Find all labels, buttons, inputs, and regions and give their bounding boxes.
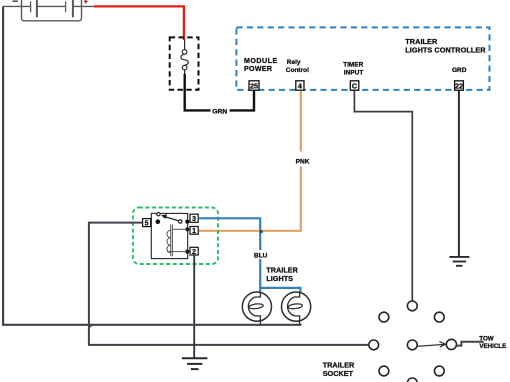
relay pin 5 xyxy=(143,219,151,228)
svg-text:TOW: TOW xyxy=(479,336,493,343)
socket pin top xyxy=(407,301,417,311)
trailer lights controller U1 xyxy=(236,27,489,90)
svg-text:GRD: GRD xyxy=(452,67,467,74)
relay pin 2 xyxy=(190,247,198,256)
relay node pin2 xyxy=(185,250,189,254)
wire blue branch to right bulb xyxy=(260,288,300,292)
relay switch contact top xyxy=(157,213,160,216)
ground (relay pin2) xyxy=(182,358,208,369)
relay pin 3 xyxy=(190,214,198,223)
pin 25 xyxy=(249,81,259,91)
wire BLU relay pin3 to trailer lights (blue) xyxy=(198,218,260,292)
wire pin C to socket top pin xyxy=(354,91,412,301)
wire crossing dot xyxy=(260,230,263,233)
battery BT1 xyxy=(3,0,94,21)
socket pin upper-left xyxy=(379,312,389,322)
lamp L1 xyxy=(242,292,271,324)
battery plus sign xyxy=(84,0,88,4)
svg-text:BLU: BLU xyxy=(254,252,268,259)
relay coil xyxy=(167,224,187,256)
wire pin 22 to ground xyxy=(458,91,460,257)
relay pin 1 xyxy=(190,227,198,236)
svg-text:C: C xyxy=(352,81,358,90)
svg-text:Control: Control xyxy=(286,67,309,74)
relay K1 outline xyxy=(133,208,218,265)
svg-text:TIMER: TIMER xyxy=(343,61,364,68)
svg-text:5: 5 xyxy=(145,220,149,227)
svg-text:GRN: GRN xyxy=(212,109,227,116)
socket pin right xyxy=(446,339,456,349)
battery minus sign xyxy=(13,0,19,2)
svg-text:VEHICLE: VEHICLE xyxy=(479,343,506,350)
svg-text:25: 25 xyxy=(250,81,258,90)
socket pin bottom xyxy=(407,378,417,382)
relay node pin3 xyxy=(185,220,189,224)
lamp L2 xyxy=(282,292,311,324)
socket pin lower-right xyxy=(434,366,444,376)
pin 22 xyxy=(455,81,464,91)
svg-text:LIGHTS CONTROLLER: LIGHTS CONTROLLER xyxy=(405,46,486,55)
svg-text:SOCKET: SOCKET xyxy=(323,369,354,378)
svg-text:2: 2 xyxy=(192,249,196,256)
svg-text:1: 1 xyxy=(192,228,196,235)
pin 4 xyxy=(296,81,304,91)
pin C xyxy=(350,81,359,91)
wire PNK pin 4 to relay pin 1 (orange) xyxy=(198,91,300,231)
relay switch contact movable xyxy=(179,220,182,223)
wire GRN fuse to pin 25 (black) xyxy=(185,74,254,111)
junction dot xyxy=(89,324,92,327)
fuse element xyxy=(181,40,188,74)
svg-text:POWER: POWER xyxy=(244,65,272,73)
wire relay pin5 to trailer socket xyxy=(89,223,369,345)
socket pin upper-right xyxy=(434,312,444,322)
socket pin lower-left xyxy=(379,366,389,376)
bulb ground wire xyxy=(3,6,301,324)
svg-text:LIGHTS: LIGHTS xyxy=(266,274,293,283)
ground (controller GRD) xyxy=(449,257,469,266)
relay switch arm with arrow xyxy=(161,214,179,220)
svg-text:3: 3 xyxy=(192,216,196,223)
relay body xyxy=(151,213,187,258)
trailer socket pins xyxy=(369,301,457,382)
wire battery+ to fuse (red) xyxy=(94,6,184,40)
socket arrow xyxy=(417,342,445,348)
svg-text:MODULE: MODULE xyxy=(244,57,278,65)
relay node pin1 xyxy=(185,227,189,231)
socket pin center xyxy=(407,340,417,350)
fuse F1 xyxy=(170,37,199,89)
svg-text:PNK: PNK xyxy=(296,159,310,166)
svg-text:INPUT: INPUT xyxy=(344,70,364,77)
wire to tow vehicle xyxy=(457,342,484,346)
svg-text:22: 22 xyxy=(455,81,463,90)
relay switch common dot xyxy=(156,219,161,224)
wire relay pin2 to ground xyxy=(193,255,195,358)
socket pin mid-left xyxy=(369,340,379,350)
svg-text:Rely: Rely xyxy=(287,59,301,66)
